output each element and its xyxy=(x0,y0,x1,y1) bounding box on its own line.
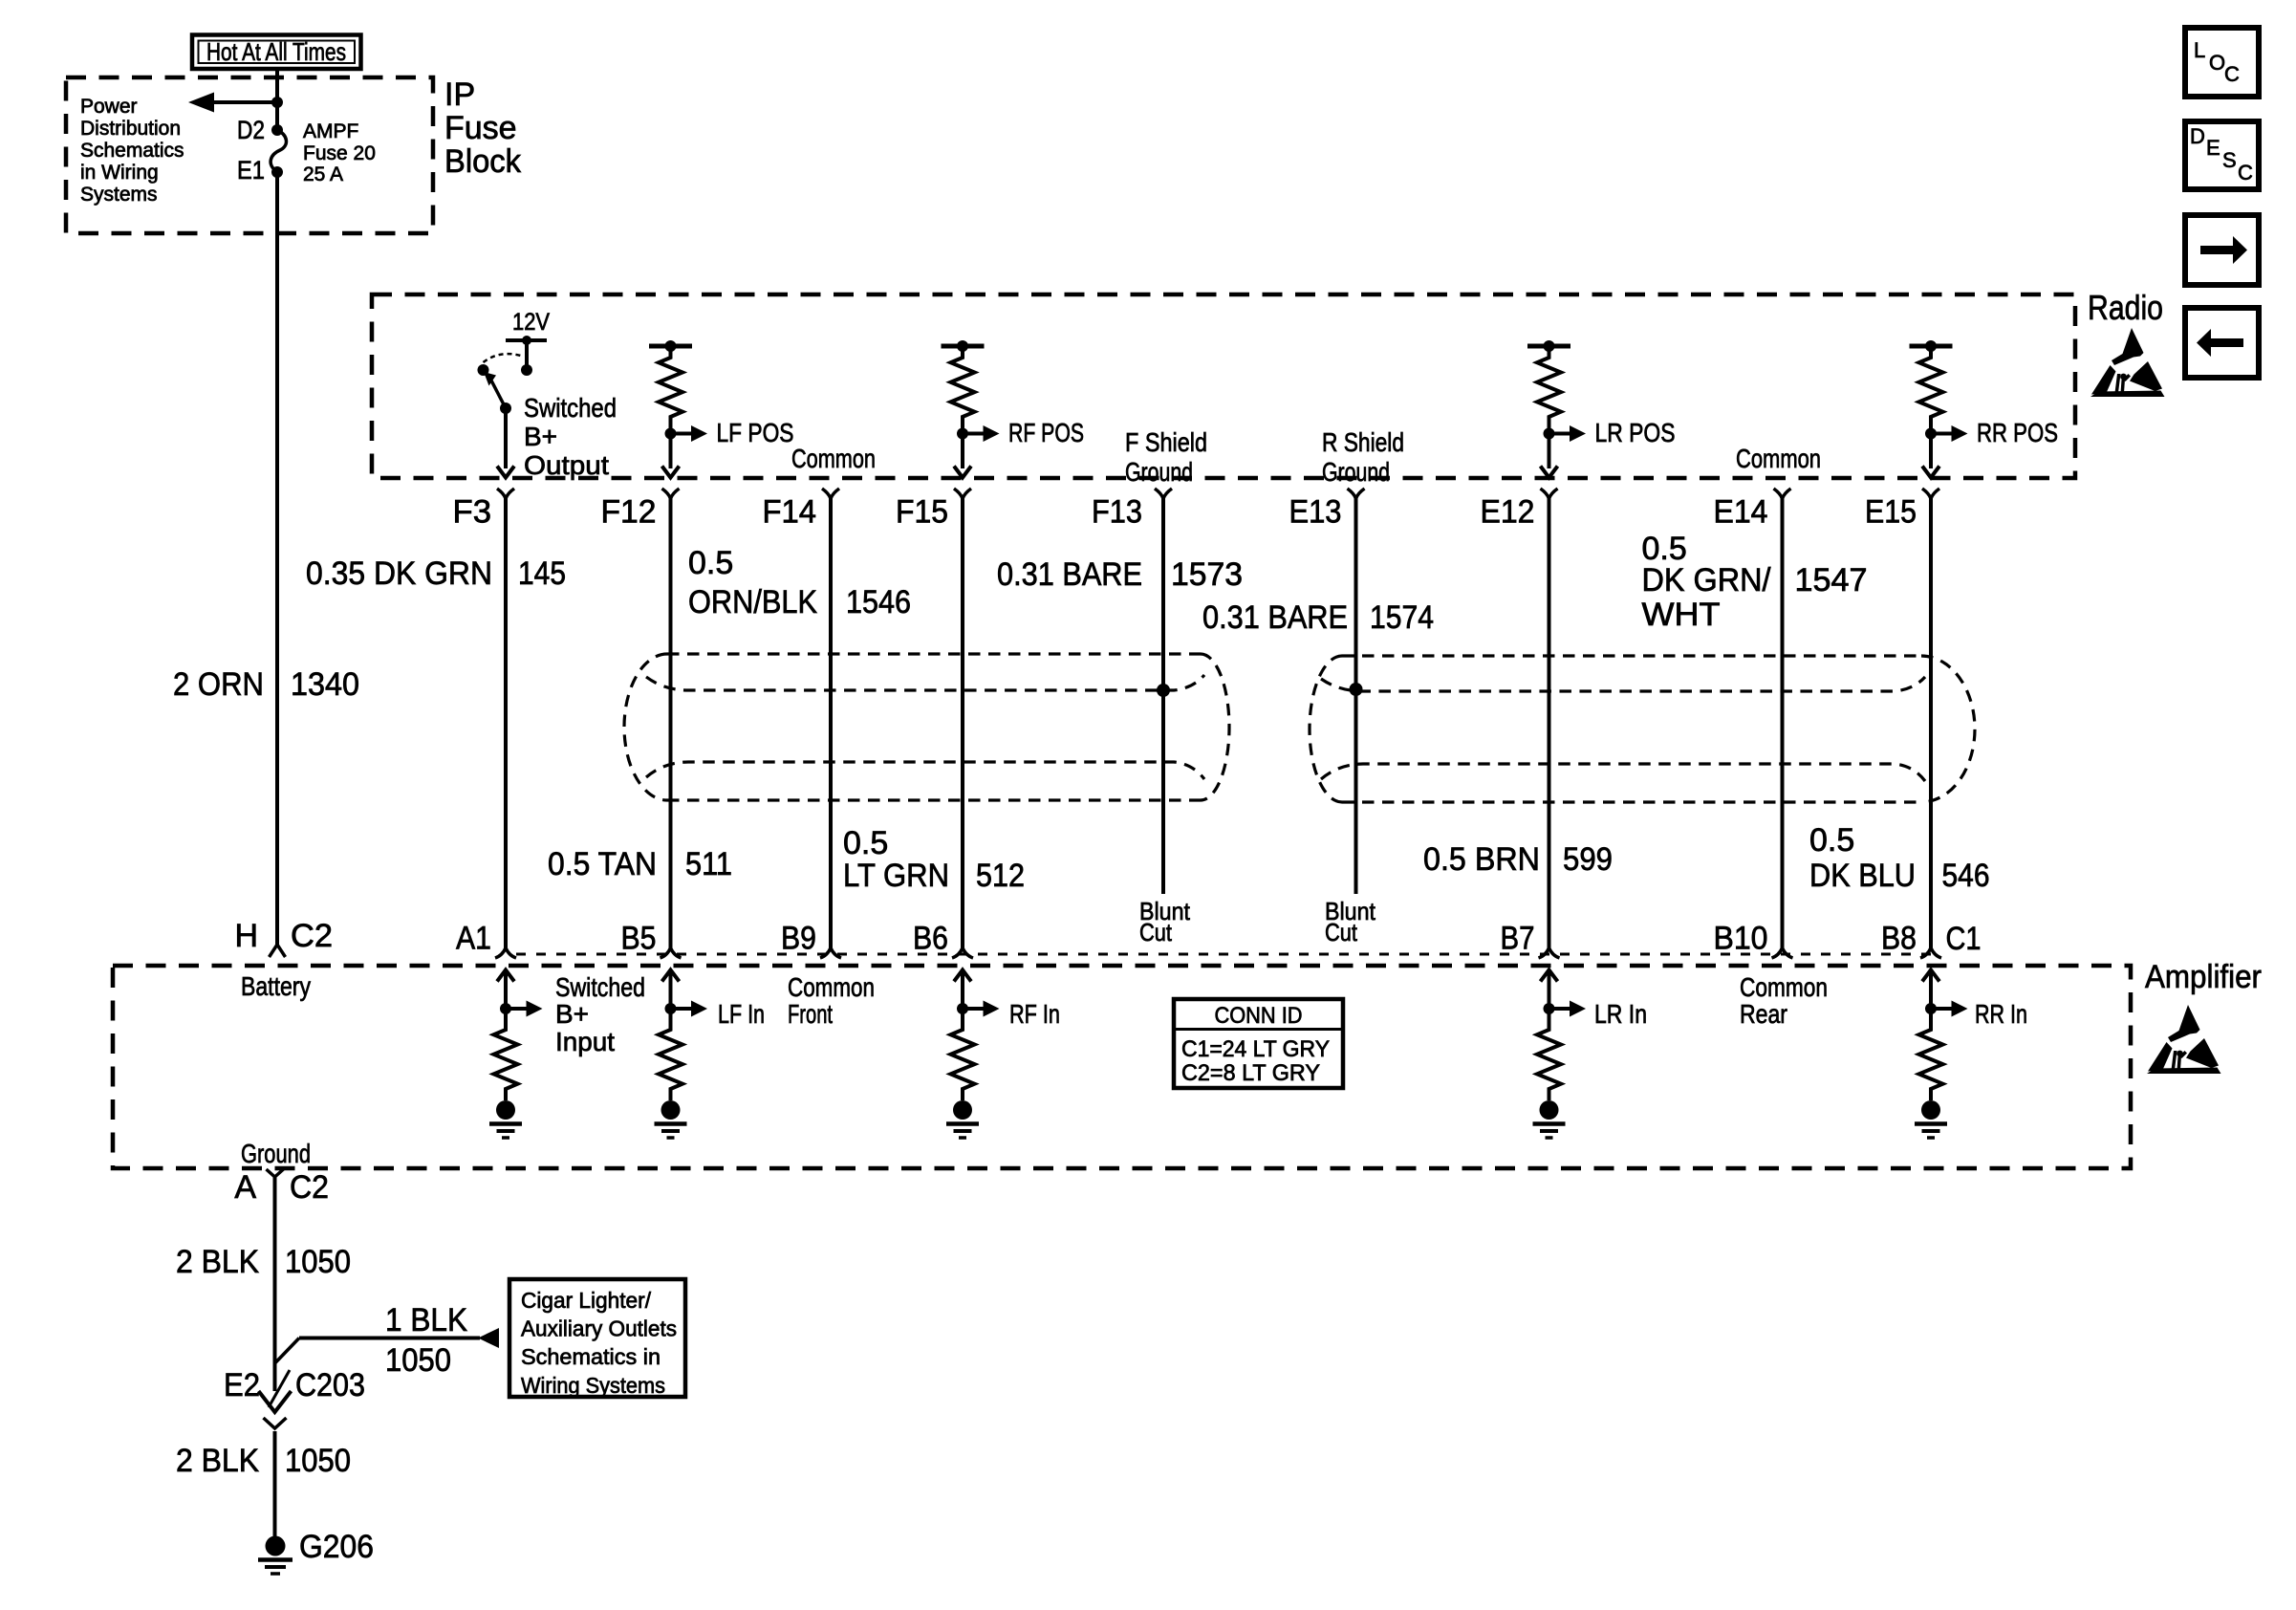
svg-text:Switched: Switched xyxy=(555,972,645,1002)
svg-text:Fuse: Fuse xyxy=(444,110,517,146)
svg-text:F13: F13 xyxy=(1092,494,1142,531)
svg-text:Rear: Rear xyxy=(1740,999,1787,1029)
svg-text:LF POS: LF POS xyxy=(717,418,794,447)
svg-text:0.35 DK GRN: 0.35 DK GRN xyxy=(306,555,492,592)
svg-text:Amplifier: Amplifier xyxy=(2145,959,2262,995)
svg-text:Output: Output xyxy=(524,450,609,480)
svg-text:Hot At All Times: Hot At All Times xyxy=(206,37,346,66)
svg-text:0.5 TAN: 0.5 TAN xyxy=(548,846,657,882)
svg-text:ORN/BLK: ORN/BLK xyxy=(688,584,817,620)
svg-text:Wiring Systems: Wiring Systems xyxy=(521,1373,665,1398)
svg-text:L: L xyxy=(2194,38,2205,62)
svg-text:0.5: 0.5 xyxy=(1809,822,1854,859)
svg-text:F14: F14 xyxy=(763,494,817,531)
svg-text:0.31 BARE: 0.31 BARE xyxy=(1202,599,1348,636)
svg-text:Radio: Radio xyxy=(2088,288,2163,327)
svg-text:Schematics: Schematics xyxy=(80,140,184,162)
svg-text:0.5: 0.5 xyxy=(843,825,888,861)
svg-text:E14: E14 xyxy=(1714,494,1768,531)
svg-text:RF POS: RF POS xyxy=(1008,418,1084,447)
svg-text:1050: 1050 xyxy=(385,1342,451,1379)
svg-text:Auxiliary Outlets: Auxiliary Outlets xyxy=(521,1316,677,1341)
svg-text:O: O xyxy=(2209,51,2225,75)
svg-text:Battery: Battery xyxy=(241,971,311,1001)
svg-text:1573: 1573 xyxy=(1171,556,1243,593)
svg-text:F15: F15 xyxy=(896,494,948,531)
svg-text:RR POS: RR POS xyxy=(1977,418,2058,447)
svg-text:E1: E1 xyxy=(237,156,265,185)
svg-text:12V: 12V xyxy=(512,309,550,336)
svg-text:RF In: RF In xyxy=(1009,999,1060,1029)
svg-text:B6: B6 xyxy=(913,921,948,957)
svg-text:Common: Common xyxy=(1740,972,1828,1002)
svg-text:Common: Common xyxy=(791,444,876,473)
svg-text:E15: E15 xyxy=(1865,494,1917,531)
svg-text:1547: 1547 xyxy=(1795,562,1868,598)
svg-text:A1: A1 xyxy=(456,921,491,957)
svg-text:Input: Input xyxy=(555,1027,615,1056)
svg-text:Schematics in: Schematics in xyxy=(521,1344,661,1369)
svg-text:A: A xyxy=(234,1169,256,1206)
svg-text:511: 511 xyxy=(685,846,732,882)
svg-text:0.31 BARE: 0.31 BARE xyxy=(997,556,1142,593)
svg-text:B9: B9 xyxy=(781,921,816,957)
svg-text:Distribution: Distribution xyxy=(80,118,181,140)
svg-text:145: 145 xyxy=(518,555,566,592)
svg-text:RR In: RR In xyxy=(1975,999,2027,1029)
svg-text:C1=24 LT GRY: C1=24 LT GRY xyxy=(1181,1036,1330,1062)
svg-text:H: H xyxy=(234,918,258,954)
svg-text:C2: C2 xyxy=(290,1169,329,1206)
svg-text:S: S xyxy=(2222,148,2237,172)
svg-text:512: 512 xyxy=(976,858,1025,894)
svg-text:2 BLK: 2 BLK xyxy=(176,1443,259,1479)
svg-text:1340: 1340 xyxy=(291,666,359,703)
svg-text:R Shield: R Shield xyxy=(1322,427,1404,457)
svg-text:in Wiring: in Wiring xyxy=(80,162,159,184)
svg-text:Block: Block xyxy=(444,143,522,180)
svg-text:D2: D2 xyxy=(237,116,265,144)
svg-text:F3: F3 xyxy=(453,494,492,531)
svg-text:2 ORN: 2 ORN xyxy=(173,666,264,703)
svg-text:Cut: Cut xyxy=(1325,918,1358,946)
svg-text:DK BLU: DK BLU xyxy=(1809,858,1916,894)
svg-text:E13: E13 xyxy=(1289,494,1342,531)
svg-text:CONN ID: CONN ID xyxy=(1215,1003,1303,1029)
svg-text:C: C xyxy=(2238,161,2253,185)
svg-text:F12: F12 xyxy=(601,494,657,531)
svg-text:C2: C2 xyxy=(291,918,333,954)
svg-text:Power: Power xyxy=(80,96,138,118)
svg-text:B8: B8 xyxy=(1881,921,1917,957)
svg-text:AMPF: AMPF xyxy=(303,120,358,142)
svg-text:LR In: LR In xyxy=(1594,999,1647,1029)
svg-text:Common: Common xyxy=(788,972,875,1002)
svg-text:B+: B+ xyxy=(524,422,557,451)
svg-text:LR POS: LR POS xyxy=(1595,418,1676,447)
svg-text:Ground: Ground xyxy=(1125,457,1193,487)
svg-text:Fuse 20: Fuse 20 xyxy=(303,142,376,164)
svg-text:Ground: Ground xyxy=(1322,457,1390,487)
svg-text:Common: Common xyxy=(1736,444,1821,473)
svg-text:DK GRN/: DK GRN/ xyxy=(1642,562,1772,598)
svg-text:0.5: 0.5 xyxy=(688,545,733,581)
svg-text:LT GRN: LT GRN xyxy=(843,858,949,894)
svg-text:1050: 1050 xyxy=(285,1443,351,1479)
svg-text:E12: E12 xyxy=(1481,494,1535,531)
svg-text:Switched: Switched xyxy=(524,393,617,423)
svg-text:C: C xyxy=(2224,62,2240,86)
svg-text:1574: 1574 xyxy=(1370,599,1434,636)
svg-text:B5: B5 xyxy=(621,921,657,957)
svg-text:D: D xyxy=(2190,124,2205,148)
svg-text:C2=8 LT GRY: C2=8 LT GRY xyxy=(1181,1060,1320,1086)
svg-text:WHT: WHT xyxy=(1642,597,1721,633)
svg-text:Front: Front xyxy=(788,999,833,1029)
svg-text:Systems: Systems xyxy=(80,184,158,206)
svg-text:1546: 1546 xyxy=(846,584,911,620)
svg-text:C203: C203 xyxy=(295,1367,365,1403)
svg-text:Cut: Cut xyxy=(1139,918,1173,946)
svg-text:B10: B10 xyxy=(1714,921,1768,957)
svg-text:E: E xyxy=(2206,136,2220,160)
svg-text:546: 546 xyxy=(1942,858,1990,894)
svg-text:0.5 BRN: 0.5 BRN xyxy=(1423,841,1540,878)
svg-text:Ground: Ground xyxy=(241,1139,311,1168)
svg-text:E2: E2 xyxy=(224,1367,260,1403)
svg-text:1050: 1050 xyxy=(285,1244,351,1280)
svg-text:B7: B7 xyxy=(1501,921,1535,957)
svg-text:25 A: 25 A xyxy=(303,163,343,185)
svg-text:Cigar Lighter/: Cigar Lighter/ xyxy=(521,1288,652,1313)
svg-text:599: 599 xyxy=(1563,841,1613,878)
svg-text:2 BLK: 2 BLK xyxy=(176,1244,259,1280)
svg-text:1 BLK: 1 BLK xyxy=(385,1302,467,1338)
svg-text:B+: B+ xyxy=(555,999,589,1029)
svg-text:F Shield: F Shield xyxy=(1125,427,1207,457)
svg-text:LF In: LF In xyxy=(718,999,765,1029)
svg-text:C1: C1 xyxy=(1946,921,1982,957)
svg-text:G206: G206 xyxy=(299,1529,374,1565)
svg-text:IP: IP xyxy=(444,76,475,113)
